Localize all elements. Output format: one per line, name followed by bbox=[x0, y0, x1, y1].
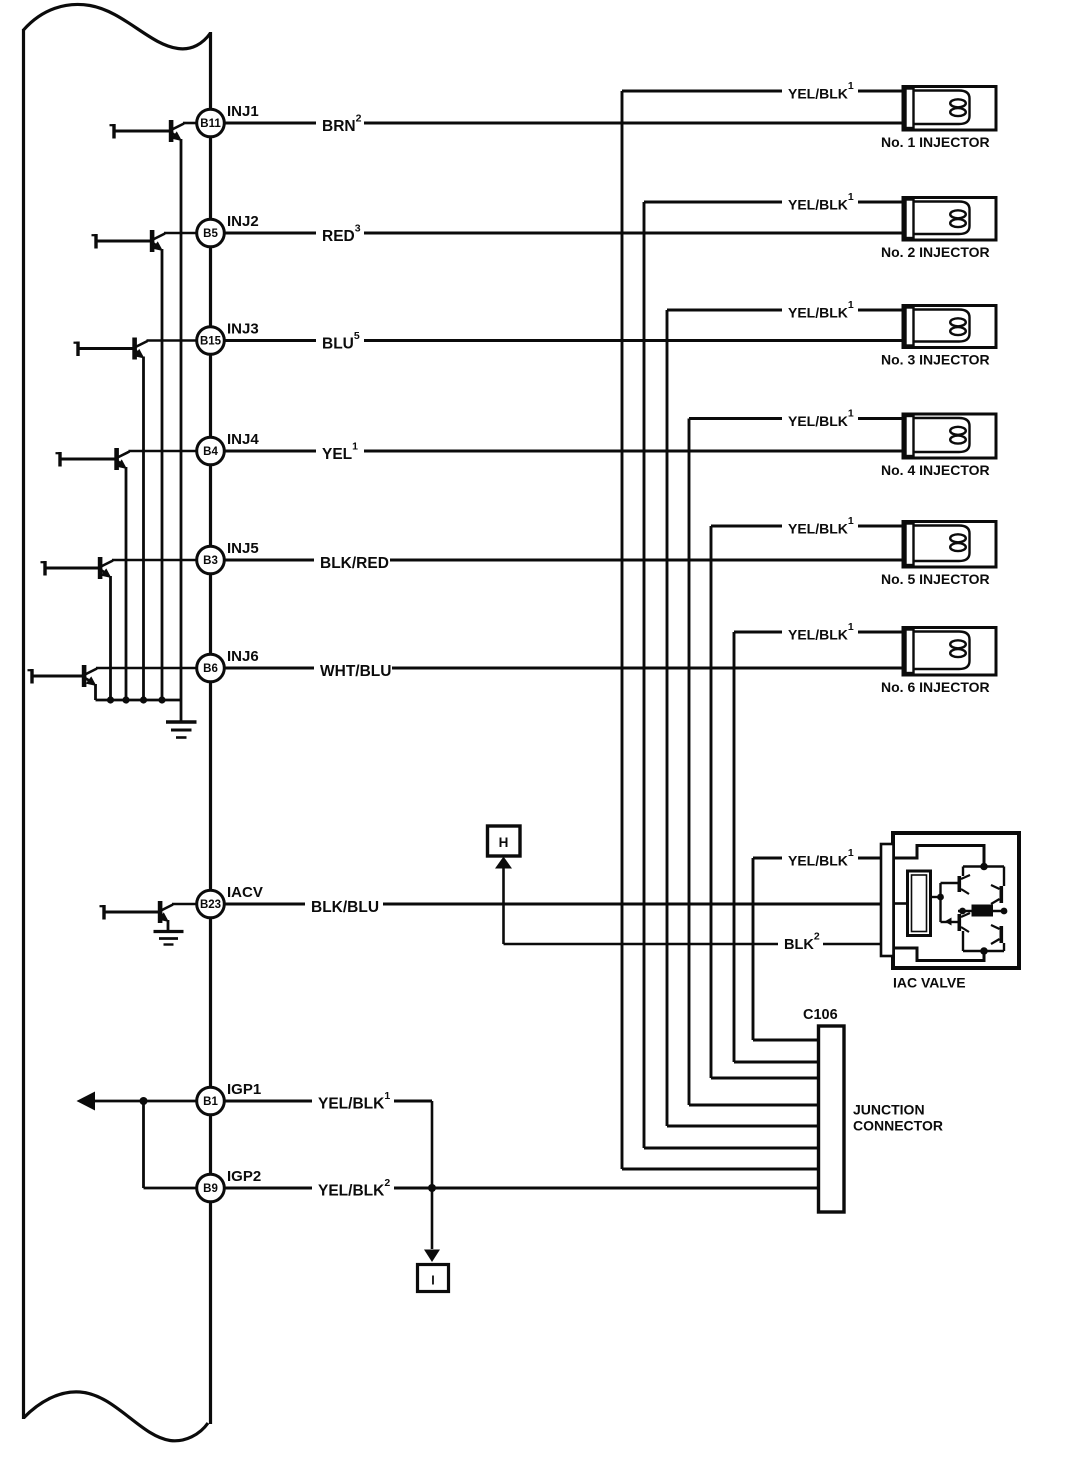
svg-text:IGP1: IGP1 bbox=[227, 1081, 261, 1098]
svg-text:INJ2: INJ2 bbox=[227, 213, 259, 230]
svg-text:WHT/BLU: WHT/BLU bbox=[320, 663, 391, 680]
svg-text:C106: C106 bbox=[803, 1007, 838, 1023]
svg-text:No. 5 INJECTOR: No. 5 INJECTOR bbox=[881, 571, 990, 587]
svg-text:INJ6: INJ6 bbox=[227, 648, 259, 665]
svg-text:B9: B9 bbox=[203, 1183, 218, 1195]
svg-text:H: H bbox=[499, 835, 509, 850]
svg-text:B15: B15 bbox=[200, 336, 222, 348]
svg-text:B6: B6 bbox=[203, 663, 218, 675]
svg-text:No. 1 INJECTOR: No. 1 INJECTOR bbox=[881, 134, 990, 150]
svg-text:JUNCTION: JUNCTION bbox=[853, 1102, 925, 1118]
svg-text:B3: B3 bbox=[203, 555, 218, 567]
svg-text:CONNECTOR: CONNECTOR bbox=[853, 1118, 943, 1134]
svg-text:No. 6 INJECTOR: No. 6 INJECTOR bbox=[881, 679, 990, 695]
svg-text:IAC VALVE: IAC VALVE bbox=[893, 975, 966, 991]
svg-text:No. 4 INJECTOR: No. 4 INJECTOR bbox=[881, 462, 990, 478]
svg-text:INJ3: INJ3 bbox=[227, 321, 259, 338]
svg-text:B23: B23 bbox=[200, 899, 221, 911]
svg-text:INJ1: INJ1 bbox=[227, 103, 259, 120]
svg-text:B11: B11 bbox=[200, 118, 221, 130]
svg-text:No. 3 INJECTOR: No. 3 INJECTOR bbox=[881, 352, 990, 368]
svg-text:INJ5: INJ5 bbox=[227, 540, 259, 557]
svg-text:I: I bbox=[431, 1274, 434, 1288]
svg-text:B4: B4 bbox=[203, 446, 218, 458]
svg-text:IGP2: IGP2 bbox=[227, 1168, 261, 1185]
svg-text:INJ4: INJ4 bbox=[227, 431, 259, 448]
svg-text:BLK/BLU: BLK/BLU bbox=[311, 899, 379, 916]
svg-text:No. 2 INJECTOR: No. 2 INJECTOR bbox=[881, 244, 990, 260]
svg-text:IACV: IACV bbox=[227, 884, 263, 901]
svg-text:BLK/RED: BLK/RED bbox=[320, 555, 389, 572]
svg-text:B1: B1 bbox=[203, 1096, 218, 1108]
svg-text:B5: B5 bbox=[203, 228, 218, 240]
